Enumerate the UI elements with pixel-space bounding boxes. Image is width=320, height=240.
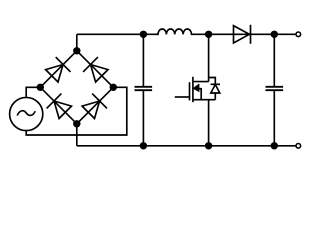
body diode triangle xyxy=(211,85,220,94)
capacitor C2 xyxy=(266,34,284,146)
wire top rail with inductor L1 coil xyxy=(77,29,296,34)
bridge arm lower-left wire xyxy=(40,87,77,124)
diode D2 upper-right arm xyxy=(83,57,108,82)
node dot top rail C2 tap xyxy=(271,31,277,37)
diode D3 lower-left arm xyxy=(47,94,72,119)
node dot bottom rail C1 xyxy=(141,143,147,149)
node dot bridge right xyxy=(110,84,116,90)
wire bridge top node to top rail xyxy=(76,34,78,51)
channel plate xyxy=(192,77,194,102)
capacitor C1 xyxy=(135,34,153,146)
body arrow head xyxy=(193,85,199,92)
output terminal plus xyxy=(296,32,301,37)
body diode bar xyxy=(211,83,220,85)
wire bottom rail xyxy=(77,145,296,147)
source stub xyxy=(193,99,215,101)
node dot bottom rail C2 xyxy=(271,143,277,149)
wire source vertical xyxy=(208,100,210,146)
bridge arm upper-right wire xyxy=(77,51,114,88)
body diode jog wire xyxy=(209,78,216,85)
gate wire stub xyxy=(175,96,190,98)
body arrow wire xyxy=(193,89,201,100)
body diode stem xyxy=(214,93,216,100)
drain stub xyxy=(193,81,209,83)
diode D4 lower-right arm xyxy=(82,94,107,119)
wire AC source top to bridge left node xyxy=(26,87,40,97)
diode D5 boost xyxy=(234,25,251,44)
output terminal minus xyxy=(296,144,301,149)
bridge arm upper-left wire xyxy=(40,51,77,88)
bridge arm lower-right wire xyxy=(77,87,114,124)
AC source V1 xyxy=(10,97,43,130)
wire drain vertical xyxy=(208,34,210,81)
node dot bridge top xyxy=(74,48,80,54)
node dot bottom rail source xyxy=(206,143,212,149)
node dot bridge left xyxy=(37,84,43,90)
wire AC source bottom to bridge right node xyxy=(26,87,127,135)
MOSFET Q1 xyxy=(175,34,220,146)
node dot bridge bottom xyxy=(74,121,80,127)
diode D1 upper-left arm xyxy=(46,57,71,82)
gate plate xyxy=(189,82,191,100)
wire bridge bottom node to bottom rail xyxy=(76,124,78,146)
node dot top rail C1 tap xyxy=(141,31,147,37)
node dot top rail MOSFET drain tap xyxy=(206,31,212,37)
